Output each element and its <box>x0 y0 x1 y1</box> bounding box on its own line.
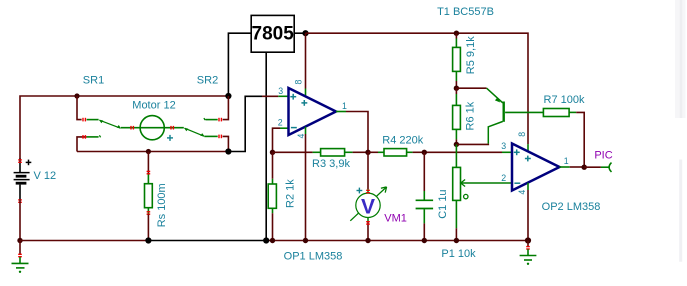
wire node A to R3 <box>273 151 321 153</box>
switch SR1 <box>77 96 121 128</box>
window border right <box>675 0 686 262</box>
node A <box>270 150 275 155</box>
wire battery+ rail <box>20 96 228 160</box>
svg-text:3: 3 <box>278 86 283 96</box>
wire motor bottom rail <box>77 151 228 153</box>
label R4 220k <box>382 135 423 147</box>
label OP1 LM358 <box>284 250 343 262</box>
node SR2 bottom <box>225 148 231 154</box>
svg-text:T1 BC557B: T1 BC557B <box>437 6 494 18</box>
svg-text:PIC: PIC <box>594 150 612 162</box>
label OP2 LM358 <box>542 201 601 213</box>
voltmeter VM1 <box>350 152 386 240</box>
svg-text:R5 9,1k: R5 9,1k <box>465 36 477 74</box>
wire node to R4 <box>368 151 384 153</box>
transistor T1 <box>456 88 543 144</box>
svg-text:VM1: VM1 <box>384 213 407 225</box>
svg-text:Motor 12: Motor 12 <box>132 100 175 112</box>
node P1 bottom <box>454 238 459 243</box>
svg-text:7805: 7805 <box>252 23 295 44</box>
node R5 top <box>454 31 459 36</box>
svg-text:SR2: SR2 <box>197 74 218 86</box>
svg-text:V 12: V 12 <box>34 170 57 182</box>
svg-text:1: 1 <box>342 101 347 111</box>
label C1 1u <box>437 189 449 218</box>
svg-text:R7 100k: R7 100k <box>544 94 585 106</box>
resistor R7 <box>543 109 584 168</box>
resistor R3 <box>321 149 368 156</box>
node SR2 <box>225 93 231 99</box>
wire to PIC <box>584 166 608 168</box>
label R3 3,9k <box>312 158 350 170</box>
label V 12 <box>34 170 57 182</box>
svg-text:V: V <box>361 196 375 219</box>
wire OP2 pin8 stub <box>527 144 529 151</box>
label R6 1k <box>464 101 476 130</box>
wire OP2 output <box>560 166 585 168</box>
node 7805 ground rail <box>263 237 269 243</box>
node VM1 bottom <box>365 238 370 243</box>
wire 7805 output <box>294 32 305 34</box>
svg-text:2: 2 <box>501 173 506 183</box>
svg-text:R4 220k: R4 220k <box>382 135 423 147</box>
node Rs top <box>146 149 151 154</box>
ground left <box>12 241 29 273</box>
svg-text:R2 1k: R2 1k <box>285 179 297 208</box>
wire SR1 lower contact <box>77 135 101 151</box>
wire 7805 input <box>228 33 251 96</box>
potentiometer P1 <box>453 144 512 240</box>
node Rs bottom <box>145 237 151 243</box>
svg-text:P1 10k: P1 10k <box>441 248 476 260</box>
capacitor C1 <box>416 152 434 240</box>
wire OP1 output <box>336 112 368 153</box>
svg-text:4: 4 <box>517 190 527 195</box>
battery V1 <box>14 159 32 203</box>
label T1 BC557B <box>437 6 494 18</box>
wire OP2 pin4 <box>527 183 529 241</box>
label SR2 <box>197 74 218 86</box>
svg-text:SR1: SR1 <box>83 74 104 86</box>
node 7805 output <box>302 30 308 36</box>
wire 7805 ground <box>265 52 267 240</box>
node R2 bottom <box>270 238 275 243</box>
node battery- <box>17 238 22 243</box>
node OP2 pin4 rail <box>525 237 531 243</box>
node X <box>454 86 459 91</box>
resistor Rs <box>145 152 153 241</box>
label SR1 <box>83 74 104 86</box>
wire OP1 pin3 <box>228 96 288 151</box>
switch SR2 <box>184 128 229 152</box>
wire OP1 pin8 <box>305 33 307 96</box>
label VM1 <box>384 213 407 225</box>
wire +5V rail <box>306 33 529 144</box>
wire ground rail left (maroon) <box>20 240 148 242</box>
label Rs 100m <box>156 183 168 227</box>
ground right <box>520 241 537 265</box>
terminal PIC <box>609 163 611 172</box>
node C1 top <box>422 150 427 155</box>
svg-text:OP1 LM358: OP1 LM358 <box>284 250 343 262</box>
label R2 1k <box>285 179 297 208</box>
wire battery- <box>19 200 21 241</box>
label R7 100k <box>544 94 585 106</box>
svg-text:OP2 LM358: OP2 LM358 <box>542 201 601 213</box>
svg-text:2: 2 <box>278 118 283 128</box>
resistor R5 <box>453 33 461 88</box>
wire ground rail middle (black) <box>148 240 266 242</box>
resistor R2 <box>268 152 276 240</box>
node SR1 <box>74 93 79 98</box>
node C1 bottom <box>422 238 427 243</box>
node OP2 output <box>582 165 587 170</box>
regulator U1 7805 <box>251 15 294 52</box>
node OP1 pin4 rail <box>303 238 308 243</box>
svg-text:C1 1u: C1 1u <box>437 189 449 218</box>
node VM1 top <box>365 150 370 155</box>
svg-text:1: 1 <box>564 156 569 166</box>
label R5 9,1k <box>465 36 477 74</box>
resistor R6 <box>453 88 461 144</box>
svg-text:R3 3,9k: R3 3,9k <box>312 158 350 170</box>
wire OP1 pin4 <box>305 127 307 241</box>
wire ground rail right (maroon) <box>266 240 528 242</box>
node Y <box>454 142 459 147</box>
svg-text:3: 3 <box>501 141 506 151</box>
label PIC <box>594 150 612 162</box>
label P1 10k <box>441 248 476 260</box>
label Motor 12 <box>132 100 175 112</box>
wire SR2 open contact <box>204 96 229 121</box>
wire row to OP2 pin3 <box>424 151 512 153</box>
op-amp OP1 <box>278 80 347 139</box>
svg-text:Rs 100m: Rs 100m <box>156 183 168 227</box>
op-amp OP2 <box>501 132 569 195</box>
svg-text:8: 8 <box>517 132 527 137</box>
resistor R4 <box>384 149 424 156</box>
svg-text:8: 8 <box>294 80 304 85</box>
wire OP1 pin2 <box>273 128 289 152</box>
motor M1 <box>121 116 184 141</box>
svg-text:R6 1k: R6 1k <box>464 101 476 130</box>
